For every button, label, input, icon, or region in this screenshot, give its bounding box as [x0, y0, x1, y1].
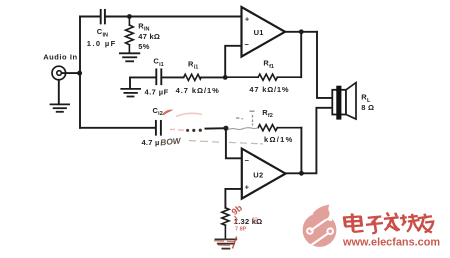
watermark chinese text dian: [343, 214, 363, 232]
resistor Rf1: [225, 74, 301, 80]
watermark chinese text fa: [384, 213, 400, 231]
resistor RB 1.32k: [222, 208, 229, 238]
svg-text:+: +: [245, 182, 250, 191]
watermark chinese text shao: [400, 214, 420, 232]
wire U1 output: [285, 31, 317, 33]
svg-text:−: −: [245, 156, 250, 165]
svg-text:7 8P: 7 8P: [235, 227, 247, 233]
svg-text:47 kΩ/1%: 47 kΩ/1%: [249, 85, 289, 94]
ground (Ci1): [121, 89, 140, 97]
wire top rail left: [80, 16, 100, 18]
wire Ci1 to Ri1: [162, 76, 184, 78]
svg-text:5%: 5%: [138, 42, 149, 51]
svg-text:47 kΩ: 47 kΩ: [138, 32, 160, 41]
node U2 output: [299, 171, 304, 176]
node audio junction: [77, 71, 82, 76]
watermark chinese text you: [418, 214, 434, 233]
ground (RIN): [120, 53, 139, 61]
svg-text:4.7 µ: 4.7 µ: [142, 138, 160, 147]
svg-text:+: +: [245, 14, 250, 23]
ground (RB): [215, 239, 236, 248]
capacitor CIN: [101, 10, 105, 24]
wire U2 output: [286, 172, 302, 174]
svg-text:1.0 µF: 1.0 µF: [87, 39, 117, 48]
wire U1 output to speaker top terminal: [317, 32, 332, 98]
node U1 output: [299, 29, 304, 34]
wire node A2 to U2 inverting input: [226, 128, 242, 158]
watermark gray dashed line lower: [189, 141, 263, 144]
node A1: [223, 75, 228, 80]
wire top rail right: [105, 16, 241, 18]
op-amp U1: [242, 7, 286, 57]
watermark red stroke over 1 of RB label: [235, 216, 238, 224]
audio input connector J1: [52, 66, 66, 80]
watermark red dashes over RB ground: [214, 241, 235, 246]
svg-text:−: −: [244, 40, 249, 49]
watermark red tint on omega of RB label: [252, 217, 258, 223]
wire U2 noninverting input to RB: [225, 189, 241, 208]
watermark elecfans logo: [303, 205, 337, 247]
wire audio stub: [61, 72, 80, 74]
wire node A1 to U1 inverting input: [225, 46, 241, 78]
wire Ci1 ground stem: [130, 77, 156, 88]
svg-text:8 Ω: 8 Ω: [361, 103, 374, 112]
wire Ci2 to node A2 partially erased: remnant dots: [186, 129, 202, 132]
wire Ri1 to node A1: [201, 76, 225, 78]
node A2: [223, 126, 228, 131]
resistor RIN: [126, 17, 134, 53]
svg-text:U2: U2: [253, 170, 263, 179]
watermark red swoosh near Ci2: [162, 110, 174, 116]
op-amp U2: [242, 149, 286, 199]
wire remnant Ci2 to node A2: [206, 127, 226, 129]
svg-text:1.32 kΩ: 1.32 kΩ: [234, 217, 263, 226]
resistor Ri1: [184, 74, 202, 80]
svg-text:kΩ/1%: kΩ/1%: [264, 135, 294, 144]
watermark gray dashes above Rf2: [236, 111, 254, 125]
svg-text:4.7 µF: 4.7 µF: [145, 87, 169, 96]
watermark red diagonal near RB ground: [233, 237, 237, 249]
speaker RL: [332, 83, 356, 120]
svg-text:Audio In: Audio In: [43, 53, 77, 62]
ground (audio input): [51, 80, 70, 112]
watermark chinese text zi: [366, 217, 383, 234]
resistor Rf2: [258, 125, 301, 131]
wire U2 output to speaker bottom terminal: [301, 108, 332, 174]
wire left bus: [79, 17, 81, 128]
watermark pale dashes on erased wire: [170, 128, 184, 131]
capacitor Ci1: [156, 69, 161, 84]
wire Rf1 to U1 output: [300, 32, 302, 77]
svg-text:www.elecfans.com: www.elecfans.com: [342, 236, 440, 248]
watermark faint smudged wire node A2 to Rf2: [228, 128, 258, 130]
watermark pale swoosh: [176, 113, 202, 116]
svg-text:U1: U1: [254, 28, 264, 37]
wire bus to Ci2: [80, 127, 156, 129]
svg-text:4.7 kΩ/1%: 4.7 kΩ/1%: [176, 86, 220, 95]
node top rail RIN junction: [127, 14, 132, 19]
wire Rf2 to U2 output: [300, 128, 302, 174]
capacitor Ci2: [156, 121, 161, 135]
